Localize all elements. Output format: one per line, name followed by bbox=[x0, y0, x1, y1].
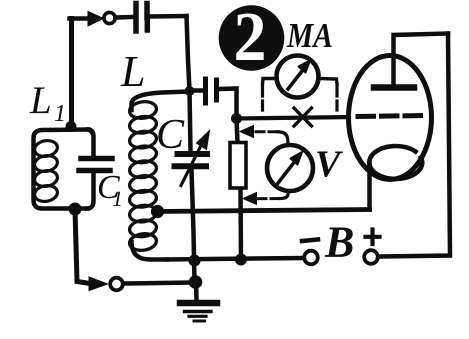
ground stem bbox=[194, 282, 199, 299]
svg-text:2: 2 bbox=[234, 0, 267, 76]
wire junction to grid capacitor bbox=[190, 88, 204, 93]
coil L loop 9 bbox=[128, 218, 157, 238]
badge 2 black circle bbox=[219, 5, 285, 71]
svg-text:B: B bbox=[324, 218, 354, 267]
coil L loop 4 bbox=[128, 144, 157, 164]
coil L1 loop 2 bbox=[33, 154, 58, 173]
wire left lower vertical from L1 bottom bbox=[75, 209, 90, 284]
coil L loop 6 bbox=[128, 174, 157, 194]
ground bar 4 bbox=[194, 320, 205, 323]
junction dot bottom wire / cap branch bbox=[189, 255, 201, 267]
coil L loop 5 bbox=[128, 159, 157, 179]
junction dot L1 top bbox=[66, 121, 77, 132]
coil L loop 2 bbox=[128, 115, 157, 135]
svg-text:L: L bbox=[29, 79, 52, 122]
junction dot coil L top bbox=[185, 86, 195, 96]
minus terminal circle bbox=[304, 251, 318, 265]
wire top-left vertical from antenna loop to L1 top bbox=[69, 19, 74, 127]
milliammeter right dashed lead bbox=[335, 87, 338, 114]
wire top-left horizontal bbox=[70, 16, 91, 21]
arrow on bottom-left wire bbox=[89, 277, 108, 291]
svg-text:MA: MA bbox=[286, 16, 333, 55]
voltmeter V circle bbox=[267, 145, 313, 191]
terminal circle top-left bbox=[104, 12, 115, 23]
capacitor (antenna coupling) left plate bbox=[133, 4, 139, 32]
voltmeter needle bbox=[277, 161, 296, 186]
milliammeter left dashed lead bbox=[261, 87, 264, 114]
L1 tank right side upper bbox=[89, 130, 94, 157]
wire coil tap to cathode (horizontal) bbox=[157, 210, 370, 212]
resistor R body bbox=[230, 143, 246, 189]
variable capacitor C top plate bbox=[178, 151, 208, 157]
wire from circle to antenna capacitor bbox=[116, 15, 134, 20]
junction dot ground node bbox=[189, 275, 203, 289]
coil L loop 3 bbox=[128, 130, 157, 150]
milliammeter needle bbox=[288, 69, 304, 90]
bottom wire from coil L to minus terminal bbox=[167, 258, 304, 260]
voltmeter bottom dashed lead bbox=[256, 197, 280, 200]
junction dot coil tap bbox=[151, 205, 164, 218]
wire grid capacitor to vertical corner bbox=[219, 89, 237, 119]
wire junction down to variable capacitor bbox=[190, 91, 191, 151]
coil L loop 10 bbox=[128, 232, 157, 252]
coil L bottom curve to bottom wire bbox=[132, 242, 168, 260]
voltmeter needle arrowhead bbox=[291, 152, 303, 165]
tube grid dashed line bbox=[358, 116, 427, 117]
voltmeter top lead corner bbox=[278, 132, 288, 145]
tube cathode loop bbox=[369, 146, 422, 179]
coil L loop 7 bbox=[128, 189, 157, 209]
milliammeter right lead bbox=[319, 79, 338, 85]
coil L1 loop 1 bbox=[33, 139, 58, 158]
coil L top curve and wire to junction bbox=[132, 92, 190, 111]
variable capacitor C bottom plate bbox=[175, 163, 207, 169]
capacitor (grid) right plate bbox=[214, 80, 219, 100]
wire from circle to ground junction bbox=[124, 283, 193, 284]
grid line from junction to tube bbox=[237, 117, 353, 119]
junction dot resistor bottom bbox=[235, 254, 247, 266]
svg-text:1: 1 bbox=[112, 186, 123, 211]
B+ wire right side bbox=[379, 34, 451, 257]
capacitor C1 top plate bbox=[81, 156, 112, 162]
tube anode bar bbox=[374, 84, 414, 91]
wire variable capacitor down to bottom wire bbox=[192, 170, 195, 283]
plus sign bbox=[366, 230, 380, 245]
L1 tank loop left/top/bottom bbox=[34, 130, 89, 209]
ground bar 1 bbox=[180, 300, 217, 307]
ground bar 2 bbox=[185, 310, 212, 313]
tube envelope bbox=[349, 56, 432, 180]
milliammeter left lead bbox=[263, 79, 278, 85]
coil L1 loop 4 bbox=[33, 184, 58, 203]
variable capacitor arrow shaft bbox=[181, 144, 202, 186]
tube cathode lead bbox=[367, 163, 372, 210]
variable capacitor arrowhead bbox=[197, 131, 210, 150]
plus terminal circle bbox=[364, 250, 378, 264]
voltmeter top dashed lead bbox=[256, 130, 278, 133]
L1 tank right side lower bbox=[87, 173, 94, 209]
voltmeter bottom lead arrow bbox=[243, 193, 257, 205]
svg-text:1: 1 bbox=[54, 101, 66, 127]
wire vertical down to coil-L top junction bbox=[187, 16, 190, 91]
milliammeter needle arrowhead bbox=[299, 61, 311, 73]
junction dot L1 bottom bbox=[69, 203, 82, 216]
svg-text:V: V bbox=[315, 144, 343, 186]
X break mark bbox=[294, 108, 312, 126]
coil L loop 8 bbox=[128, 204, 157, 224]
voltmeter top lead arrow bbox=[240, 126, 254, 138]
milliammeter MA circle bbox=[277, 56, 319, 98]
wire from capacitor to right vertical bbox=[150, 14, 187, 19]
voltmeter bottom lead corner bbox=[280, 191, 288, 199]
coil L loop 1 bbox=[128, 100, 157, 120]
svg-text:C: C bbox=[156, 112, 185, 158]
capacitor (antenna coupling) right plate bbox=[144, 4, 150, 31]
capacitor C1 bottom plate bbox=[79, 168, 110, 174]
capacitor (grid) left plate bbox=[203, 79, 208, 103]
junction dot grid line bbox=[231, 113, 242, 124]
minus sign bbox=[302, 240, 318, 242]
resistor R (grid leak) leads bbox=[237, 119, 242, 260]
coil L1 loop 3 bbox=[33, 169, 58, 188]
svg-text:L: L bbox=[120, 47, 145, 96]
tube anode lead bbox=[394, 34, 449, 85]
ground bar 3 bbox=[189, 315, 206, 318]
terminal circle bottom-left bbox=[110, 278, 123, 291]
arrow on top-left wire bbox=[88, 12, 104, 27]
